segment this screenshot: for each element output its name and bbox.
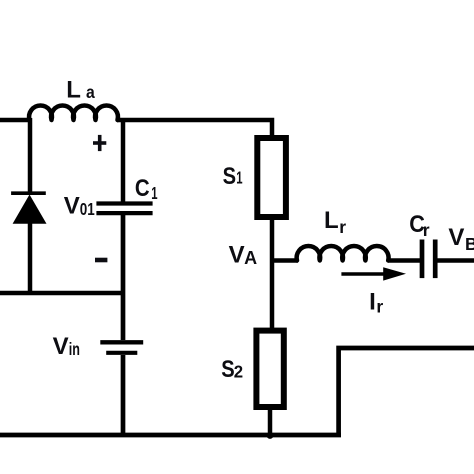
svg-text:V: V	[53, 333, 69, 360]
wire: bottom rail	[0, 433, 341, 438]
capacitor Cr left plate	[420, 240, 425, 279]
svg-text:V: V	[448, 224, 464, 251]
battery Vin top plate (long)	[100, 340, 143, 344]
svg-text:I: I	[369, 288, 376, 315]
wire: step from bottom rail up and right to VB return	[339, 348, 474, 437]
wire: Cr to right edge (VB)	[438, 258, 474, 263]
svg-text:r: r	[423, 220, 430, 240]
svg-text:V: V	[64, 192, 80, 219]
svg-text:L: L	[66, 76, 81, 103]
svg-text:1: 1	[151, 185, 157, 204]
diode D (triangle, pointing up)	[13, 195, 47, 224]
capacitor C1 top plate	[96, 201, 152, 205]
battery Vin bottom plate (short)	[106, 351, 137, 355]
svg-text:r: r	[376, 296, 383, 316]
wire: C1 bottom plate down to Vin battery	[121, 215, 126, 340]
wire: left input to node at top-left	[0, 118, 31, 123]
wire: diode anode down to mid rail	[28, 222, 33, 295]
svg-text:A: A	[244, 248, 257, 268]
svg-text:2: 2	[234, 361, 243, 381]
svg-text:S: S	[221, 356, 234, 383]
inductor La	[29, 106, 118, 120]
svg-text:01: 01	[80, 200, 95, 219]
current arrow Ir	[341, 272, 386, 276]
wire: top rail from La to S1 branch, turning down into S1	[117, 120, 272, 136]
wire: Lr to Cr	[388, 258, 420, 263]
capacitor C1 bottom plate	[96, 211, 152, 215]
svg-text:r: r	[339, 217, 346, 237]
svg-text:in: in	[69, 340, 80, 360]
switch S1	[257, 138, 286, 217]
junction at bottom rail	[267, 432, 274, 439]
inductor Lr	[297, 246, 389, 261]
svg-text:a: a	[86, 82, 95, 102]
wire: node to diode cathode	[28, 118, 33, 193]
diode D (cathode bar)	[11, 191, 46, 195]
wire: S1 bottom to S2 top (node VA on it)	[270, 217, 275, 331]
svg-text:L: L	[324, 207, 339, 234]
wire: battery to bottom rail	[121, 355, 126, 436]
plus sign (V01 polarity)	[93, 141, 106, 145]
svg-text:B: B	[465, 234, 474, 254]
svg-text:V: V	[229, 242, 245, 269]
wire: S2 bottom to bottom rail	[268, 407, 273, 436]
capacitor Cr right plate	[433, 240, 438, 279]
wire: VA node to Lr	[270, 258, 298, 263]
minus sign (V01 polarity)	[95, 258, 107, 263]
svg-text:1: 1	[236, 169, 242, 188]
wire: top rail down to C1	[121, 118, 126, 202]
switch S2	[256, 331, 283, 407]
wire: mid-left rail	[0, 291, 125, 296]
svg-text:S: S	[223, 162, 236, 189]
svg-text:C: C	[135, 175, 150, 202]
